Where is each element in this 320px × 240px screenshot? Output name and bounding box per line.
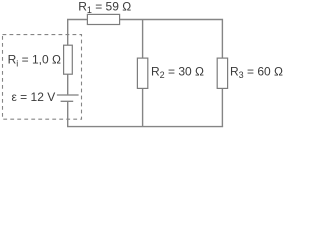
wire: middle branch top	[142, 20, 144, 59]
svg-text:R2 = 30 Ω: R2 = 30 Ω	[151, 64, 204, 80]
resistor R3	[217, 58, 227, 88]
wire: top horizontal from R1 to right corner	[120, 20, 223, 59]
wire: left branch Ri box to battery top plate	[67, 74, 69, 94]
resistor R2	[137, 58, 147, 88]
wire: middle branch bottom	[142, 88, 144, 126]
battery cell: short plate	[61, 100, 74, 102]
svg-text:R1 = 59 Ω: R1 = 59 Ω	[78, 0, 131, 15]
svg-text:R3 = 60 Ω: R3 = 60 Ω	[230, 64, 283, 80]
resistor Ri (internal resistance)	[64, 45, 73, 74]
wire: left branch battery bottom plate to bottom wire	[67, 102, 69, 127]
wire: bottom horizontal	[67, 126, 223, 128]
battery cell: long plate	[57, 94, 79, 96]
resistor R1	[87, 14, 119, 24]
battery internal dashed box	[3, 35, 82, 120]
svg-text:ε = 12 V: ε = 12 V	[12, 90, 56, 104]
wire: right branch bottom	[221, 88, 223, 126]
svg-text:Ri = 1,0 Ω: Ri = 1,0 Ω	[8, 53, 61, 69]
wire: left branch top (corner to Ri box)	[68, 20, 88, 46]
